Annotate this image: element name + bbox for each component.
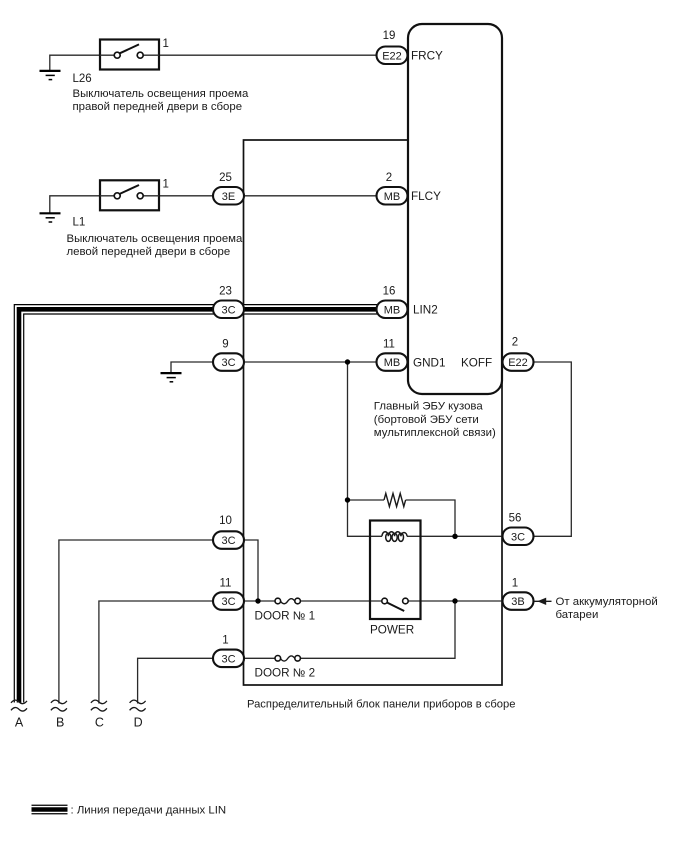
pin number 19 (383, 30, 396, 42)
pin number 23 (219, 286, 232, 298)
label DOOR No2 (255, 667, 316, 680)
svg-text:19: 19 (383, 30, 396, 42)
svg-text:правой передней двери в сборе: правой передней двери в сборе (73, 101, 243, 113)
svg-text:1: 1 (163, 179, 169, 191)
wire: node B to 3C pin 10 (59, 540, 215, 704)
wire: ground to switch L26 to connector E22 pin 19 (FRCY) (50, 55, 378, 71)
label L26 (73, 73, 92, 85)
svg-text:3B: 3B (511, 596, 524, 608)
label: switch L1 description (67, 233, 244, 258)
node B label (56, 715, 64, 729)
svg-text:Распределительный блок панели: Распределительный блок панели приборов в… (247, 698, 515, 710)
svg-text:GND1: GND1 (413, 356, 445, 369)
svg-text:9: 9 (222, 338, 228, 350)
svg-text:батареи: батареи (556, 609, 599, 621)
resistor (printed) in J/B (384, 493, 406, 506)
pin number 10 (219, 515, 232, 527)
node A label (15, 715, 24, 729)
connector oval MB pin 11 (GND1) (377, 353, 408, 371)
switch L26 (door courtesy switch right front) (100, 40, 159, 70)
svg-text:56: 56 (509, 513, 522, 525)
node: junction dot resistor left (345, 497, 350, 502)
svg-text:L26: L26 (73, 73, 92, 85)
svg-text:3C: 3C (511, 531, 525, 543)
svg-text:16: 16 (383, 286, 396, 298)
svg-text:D: D (134, 715, 143, 729)
wire: 3C pin 11 through DOOR1 switch to relay switch to 3B pin 1 (244, 600, 504, 602)
connector oval 3C pin 1 (213, 650, 244, 668)
svg-text:: Линия передачи данных LIN: : Линия передачи данных LIN (71, 805, 227, 817)
wire: 3E pin 25 to MB pin 2 (FLCY) inside J/B (244, 195, 378, 197)
legend: LIN line text (71, 805, 227, 817)
svg-text:3C: 3C (221, 596, 235, 608)
pin number 9 (222, 338, 228, 350)
svg-text:3C: 3C (221, 653, 235, 665)
svg-text:1: 1 (512, 577, 518, 589)
svg-text:мультиплексной связи): мультиплексной связи) (374, 427, 496, 439)
label: battery feed (556, 596, 658, 621)
connector oval E22 pin 19 (FRCY) (377, 47, 408, 65)
pin number 11 (220, 577, 232, 589)
node: junction dot GND1 branch (345, 359, 350, 364)
pin name FLCY (411, 190, 441, 203)
relay POWER box (370, 521, 421, 620)
pin number 1 of switch L26 (163, 38, 169, 50)
svg-text:2: 2 (386, 172, 392, 184)
svg-text:L1: L1 (73, 216, 86, 228)
svg-text:3E: 3E (222, 191, 235, 203)
svg-text:2: 2 (512, 337, 518, 349)
svg-text:E22: E22 (382, 50, 402, 62)
svg-text:MB: MB (384, 357, 401, 369)
node A break squiggle (11, 700, 27, 711)
pin name GND1 (413, 356, 445, 369)
svg-text:A: A (15, 715, 24, 729)
svg-text:11: 11 (220, 577, 232, 589)
connector oval MB pin 16 (LIN2) (377, 301, 408, 319)
svg-text:3C: 3C (221, 357, 235, 369)
pin number 56 (509, 513, 522, 525)
pin name KOFF (461, 356, 492, 369)
svg-text:FRCY: FRCY (411, 49, 443, 62)
node: junction dot DOOR1 input (255, 598, 260, 603)
node C break squiggle (91, 700, 107, 711)
connector oval MB pin 2 (FLCY) (377, 187, 408, 205)
connector oval 3B pin 1 (503, 592, 534, 610)
svg-text:23: 23 (219, 286, 232, 298)
svg-text:От аккумуляторной: От аккумуляторной (556, 596, 658, 608)
connector oval 3C pin 56 (503, 528, 534, 546)
wire: node C to 3C pin 11 (99, 601, 215, 704)
svg-text:C: C (95, 715, 104, 729)
pin number 1 (512, 577, 518, 589)
node: junction dot coil output (452, 534, 457, 539)
node B break squiggle (51, 700, 67, 711)
node: junction dot relay output / 3B (452, 598, 457, 603)
switch DOOR No2 contacts (275, 656, 300, 662)
junction block J/B (Распределительный блок панели приборов) (244, 140, 503, 685)
svg-text:MB: MB (384, 191, 401, 203)
svg-text:11: 11 (383, 338, 395, 350)
pin number 25 (219, 172, 232, 184)
switch DOOR No1 contacts (275, 598, 300, 604)
pin number 11 (383, 338, 395, 350)
svg-text:POWER: POWER (370, 624, 414, 637)
switch L1 (door courtesy switch left front) (100, 180, 159, 210)
pin number 2 (512, 337, 518, 349)
svg-text:3C: 3C (221, 304, 235, 316)
relay POWER coil (382, 532, 407, 542)
svg-text:Главный ЭБУ кузова: Главный ЭБУ кузова (374, 401, 484, 413)
svg-text:25: 25 (219, 172, 232, 184)
connector oval 3C pin 9 (213, 353, 244, 371)
svg-text:(бортовой ЭБУ сети: (бортовой ЭБУ сети (374, 414, 479, 426)
svg-text:1: 1 (163, 38, 169, 50)
wire: ground to 3C pin 9 to MB pin 11 (GND1) (171, 362, 378, 373)
wire: ground to switch L1 to connector 3E pin 25 (50, 196, 215, 214)
connector oval 3C pin 11 (213, 592, 244, 610)
svg-text:Выключатель освещения проема: Выключатель освещения проема (73, 88, 250, 100)
ground symbol inside J/B (pin 9) (161, 373, 182, 382)
svg-text:LIN2: LIN2 (413, 303, 438, 316)
node D label (134, 715, 143, 729)
node C label (95, 715, 104, 729)
wire: relay coil output to 3C pin 56 (407, 535, 504, 537)
pin number 2 (386, 172, 392, 184)
wire: 3C pin 10 jumper down to DOOR1 row (244, 540, 259, 601)
svg-text:B: B (56, 715, 64, 729)
svg-text:FLCY: FLCY (411, 190, 441, 203)
label: switch L26 description (73, 88, 250, 113)
arrow from battery into 3B pin 1 (534, 598, 552, 605)
node D break squiggle (130, 700, 146, 711)
label: ECU description (374, 401, 496, 439)
svg-text:10: 10 (219, 515, 232, 527)
label POWER (370, 624, 414, 637)
svg-text:DOOR № 2: DOOR № 2 (255, 667, 316, 680)
connector oval 3C pin 23 (213, 301, 244, 319)
label L1 (73, 216, 86, 228)
wire: KOFF E22 pin 2 loop to 3C pin 56 (533, 362, 572, 536)
pin number 1 of switch L1 (163, 179, 169, 191)
svg-text:1: 1 (222, 635, 228, 647)
svg-text:DOOR № 1: DOOR № 1 (255, 609, 316, 622)
svg-text:3C: 3C (221, 535, 235, 547)
svg-text:E22: E22 (508, 357, 528, 369)
wire: 3C pin 1 through DOOR2 switch up to 3B node (244, 601, 456, 658)
label: junction block caption (247, 698, 515, 710)
svg-text:KOFF: KOFF (461, 356, 492, 369)
connector oval 3E pin 25 (213, 187, 244, 205)
svg-text:Выключатель освещения проема: Выключатель освещения проема (67, 233, 244, 245)
pin name LIN2 (413, 303, 438, 316)
pin name FRCY (411, 49, 443, 62)
connector oval E22 pin 2 (KOFF) (503, 353, 534, 371)
svg-text:левой передней двери в сборе: левой передней двери в сборе (67, 246, 231, 258)
ground symbol for switch L1 (40, 213, 61, 222)
wire: node D to 3C pin 1 (138, 658, 215, 703)
pin number 1 (222, 635, 228, 647)
svg-text:MB: MB (384, 304, 401, 316)
wire: GND1 branch down to resistor and relay coil (348, 362, 383, 536)
wire: resistor branch from node to right and down to coil output node (348, 500, 456, 536)
relay POWER contact switch (382, 598, 408, 611)
label DOOR No1 (255, 609, 316, 622)
ECU block U1 (Главный ЭБУ кузова) (408, 24, 502, 394)
pin number 16 (383, 286, 396, 298)
wire LIN bus (thick) from node A up and right to pin LIN2 (19, 309, 378, 702)
connector oval 3C pin 10 (213, 531, 244, 549)
ground symbol for switch L26 (40, 71, 61, 80)
legend: LIN line sample (32, 805, 68, 815)
